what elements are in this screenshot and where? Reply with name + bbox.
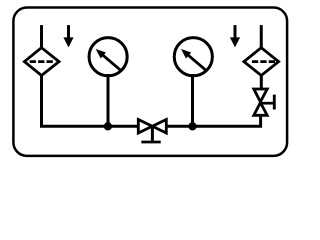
flow arrow A2: [230, 25, 240, 47]
flow arrow A1: [63, 25, 73, 47]
wire: left bottom run: [42, 76, 139, 127]
pressure gauge G1: [89, 38, 127, 76]
wire: right filter inlet stub: [260, 25, 263, 48]
node J2: [188, 122, 196, 130]
filter F1: [24, 48, 59, 76]
wire: right bottom run: [166, 116, 260, 127]
filter F2: [244, 48, 279, 76]
wire: gauge G1 drop: [107, 74, 110, 126]
pressure gauge G2: [174, 38, 212, 76]
node J1: [104, 122, 112, 130]
wire: gauge G2 drop: [191, 74, 194, 126]
valve V1: [138, 120, 166, 143]
valve V2: [254, 89, 274, 115]
wire: left filter inlet stub: [40, 25, 43, 48]
wire: filter F2 to valve V2: [260, 76, 263, 90]
